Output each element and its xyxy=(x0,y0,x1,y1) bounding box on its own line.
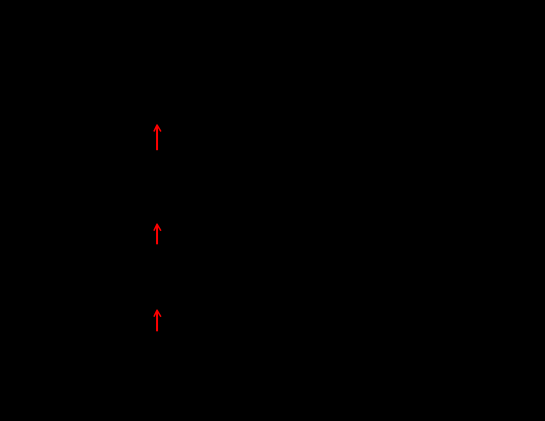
current arrow I1 xyxy=(154,125,161,150)
current arrow I3 xyxy=(154,310,161,331)
current arrow I2 xyxy=(154,224,161,244)
